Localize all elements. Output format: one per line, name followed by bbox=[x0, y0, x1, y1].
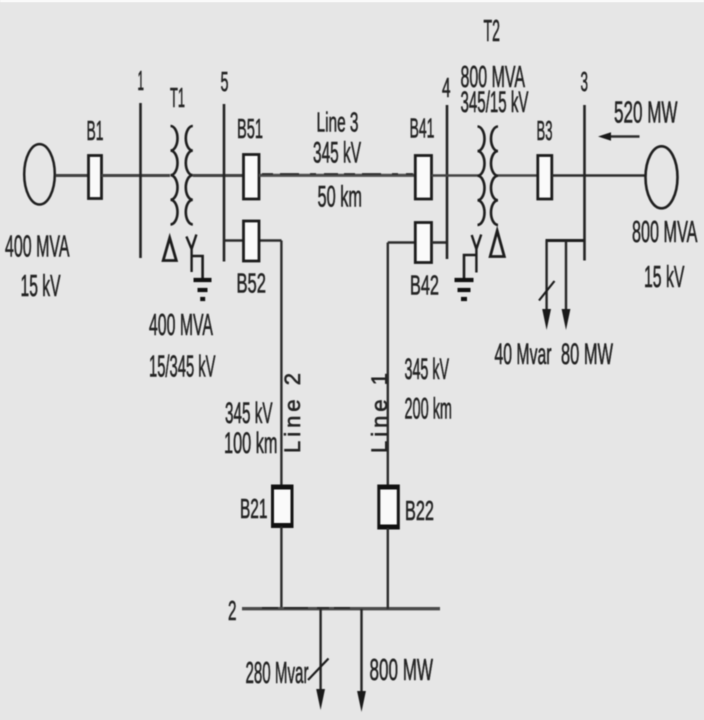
wye symbol of T2 bbox=[472, 235, 482, 273]
svg-text:15/345 kV: 15/345 kV bbox=[149, 350, 216, 384]
wire B1 to T1 bbox=[102, 174, 171, 177]
svg-text:200 km: 200 km bbox=[405, 393, 453, 426]
arrowhead 800 MW bbox=[357, 691, 366, 712]
svg-text:345 kV: 345 kV bbox=[313, 137, 361, 170]
svg-text:B51: B51 bbox=[237, 113, 263, 144]
svg-text:5: 5 bbox=[221, 66, 229, 97]
ground symbol of T2 bbox=[455, 280, 474, 299]
svg-text:345/15 kV: 345/15 kV bbox=[461, 86, 529, 119]
wire B42 to Line 1 bbox=[388, 241, 415, 244]
svg-text:345 kV: 345 kV bbox=[405, 353, 450, 386]
svg-text:345 kV: 345 kV bbox=[225, 397, 273, 430]
breaker B51 bbox=[244, 155, 260, 200]
breaker B22 bbox=[379, 486, 399, 528]
svg-text:T1: T1 bbox=[170, 82, 185, 113]
bus 1 bbox=[139, 103, 142, 258]
load wire 800 MW at bus 2 bbox=[360, 609, 362, 693]
svg-text:4: 4 bbox=[442, 72, 451, 103]
slash on 40 Mvar load bbox=[539, 281, 555, 301]
wire B21 to bus 2 bbox=[280, 527, 282, 610]
wire B42 to bus 4 bbox=[432, 241, 448, 244]
svg-text:2: 2 bbox=[228, 595, 237, 626]
transformer T2 secondary winding bbox=[491, 127, 498, 225]
ground symbol of T1 bbox=[194, 280, 212, 299]
svg-text:T2: T2 bbox=[484, 14, 501, 48]
wire Line 1 vertical bbox=[387, 243, 389, 487]
breaker B21 end caps bbox=[272, 488, 294, 526]
breaker B41 bbox=[415, 156, 431, 200]
T1 neutral step wire to ground bbox=[192, 256, 203, 278]
svg-text:50 km: 50 km bbox=[318, 181, 363, 214]
breaker B1 bbox=[89, 156, 102, 199]
wire G1 to breaker B1 bbox=[56, 174, 89, 177]
svg-text:B42: B42 bbox=[410, 270, 439, 301]
svg-text:15 kV: 15 kV bbox=[644, 260, 685, 294]
wire B3 to bus 3 and G2 bbox=[552, 174, 646, 177]
svg-text:B22: B22 bbox=[405, 495, 434, 526]
breaker B22 end caps bbox=[378, 488, 400, 527]
generator G2 (right, 800 MVA 15 kV) bbox=[646, 146, 678, 208]
wire Line 3 from B51 to B41 bbox=[259, 174, 415, 177]
transformer T1 primary winding bbox=[171, 126, 178, 224]
svg-text:800 MVA: 800 MVA bbox=[632, 215, 698, 249]
load wire 80 MW at bus 3 bbox=[565, 241, 567, 312]
breaker B3 bbox=[538, 156, 552, 200]
svg-text:B3: B3 bbox=[537, 115, 553, 146]
generator G1 (left, 400 MVA 15 kV) bbox=[24, 144, 55, 204]
svg-text:B21: B21 bbox=[240, 493, 268, 524]
bus 2 bbox=[242, 607, 440, 610]
arrowhead 520 MW bbox=[598, 132, 611, 140]
svg-text:B41: B41 bbox=[410, 113, 435, 144]
delta symbol of T1 bbox=[163, 238, 176, 261]
svg-text:40 Mvar: 40 Mvar bbox=[495, 338, 552, 371]
wire T1 to bus 5 / B51 bbox=[193, 174, 243, 177]
wire B22 to bus 2 bbox=[387, 528, 389, 609]
arrowhead 80 MW bbox=[562, 309, 571, 330]
load wire 40 Mvar at bus 3 bbox=[545, 241, 547, 312]
svg-text:15 kV: 15 kV bbox=[21, 269, 61, 303]
arrowhead 280 Mvar bbox=[316, 689, 325, 710]
top white edge bbox=[0, 0, 704, 2]
scan grain on bus 2 bbox=[262, 607, 352, 609]
svg-text:100 km: 100 km bbox=[224, 427, 278, 460]
svg-text:80 MW: 80 MW bbox=[561, 338, 613, 371]
wire T2 to B3 bbox=[498, 174, 538, 177]
transformer T1 secondary winding bbox=[186, 126, 193, 224]
bus 3 bbox=[583, 105, 586, 261]
svg-text:280 Mvar: 280 Mvar bbox=[246, 656, 309, 690]
arrowhead 40 Mvar bbox=[542, 309, 551, 330]
bus 5 bbox=[223, 104, 226, 262]
svg-text:400 MVA: 400 MVA bbox=[149, 308, 213, 342]
wye symbol of T1 bbox=[186, 235, 196, 273]
breaker B21 bbox=[273, 486, 293, 527]
wire bus 4 to T2 bbox=[432, 174, 478, 177]
arrow 520 MW into bus 3 bbox=[604, 135, 640, 138]
svg-text:520 MW: 520 MW bbox=[614, 96, 678, 130]
breaker B42 bbox=[415, 223, 431, 263]
svg-text:400 MVA: 400 MVA bbox=[5, 230, 70, 264]
wire Line 2 vertical bbox=[280, 241, 282, 487]
svg-text:B1: B1 bbox=[87, 115, 104, 146]
load wire 280 Mvar at bus 2 bbox=[319, 609, 321, 691]
load tap bar at bus 3 bbox=[546, 239, 585, 242]
breaker B52 bbox=[244, 221, 260, 261]
svg-text:800 MW: 800 MW bbox=[370, 653, 434, 687]
scan grain on Line 3 wire bbox=[262, 173, 413, 175]
wire bus 5 to breaker B52 bbox=[224, 239, 282, 242]
svg-text:B52: B52 bbox=[237, 268, 267, 299]
delta symbol of T2 bbox=[490, 231, 504, 257]
svg-text:1: 1 bbox=[138, 65, 145, 96]
svg-text:Line 3: Line 3 bbox=[317, 107, 359, 138]
transformer T2 primary winding bbox=[478, 127, 485, 225]
bus 4 bbox=[446, 105, 449, 259]
T2 neutral step wire to ground bbox=[464, 255, 476, 278]
svg-text:3: 3 bbox=[581, 66, 589, 97]
slash on 280 Mvar load bbox=[308, 659, 329, 681]
